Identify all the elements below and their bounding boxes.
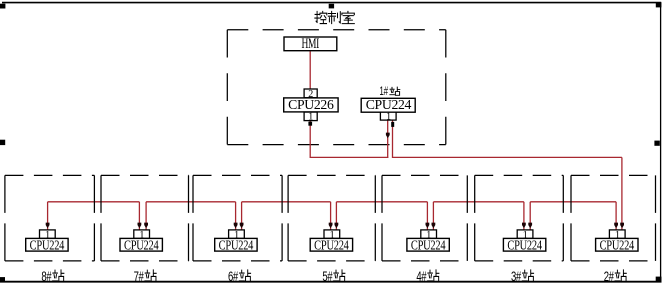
station 4 port 1	[421, 230, 437, 241]
arrowhead into station 7 port	[138, 223, 142, 229]
station 6 dashed enclosure	[193, 175, 282, 261]
selection handle top-right	[656, 2, 662, 7]
CPU224 station 1 port 1	[380, 111, 396, 122]
frame top border	[2, 2, 661, 4]
station 7 dashed enclosure	[101, 175, 189, 261]
bus wire segment station3-2	[530, 201, 616, 203]
svg-text:CPU224: CPU224	[124, 237, 159, 253]
drop wire to station 4 port	[432, 202, 434, 230]
arrowhead into station 7 port	[144, 223, 148, 229]
label 6#站	[228, 268, 251, 284]
wire CPU224 port 1 right down	[392, 120, 394, 158]
frame bottom border	[0, 281, 662, 283]
arrowhead into station 2 port	[620, 223, 624, 229]
arrowhead into station 8 port	[46, 223, 50, 229]
drop wire to station 4 port	[426, 202, 428, 230]
label 1#站 (station 1)	[379, 86, 399, 99]
label 4#站	[416, 268, 439, 284]
junction on station 1 right wire	[391, 122, 394, 127]
svg-text:CPU224: CPU224	[219, 237, 254, 253]
arrowhead into station 4 port	[426, 223, 430, 229]
arrowhead into station 5 port	[335, 223, 339, 229]
svg-text:HMI: HMI	[301, 35, 319, 52]
control room dashed enclosure	[227, 30, 445, 145]
selection handle top-left	[0, 4, 5, 9]
svg-text:CPU226: CPU226	[288, 97, 334, 112]
drop wire to station 5 port	[330, 202, 332, 230]
svg-text:3#: 3#	[511, 268, 521, 284]
label 控制室 (control room)	[315, 11, 355, 23]
station 2 port 1	[609, 230, 625, 241]
frame right border	[660, 3, 662, 282]
junction on CPU226 wire	[308, 122, 312, 126]
svg-text:6#: 6#	[228, 268, 238, 284]
arrowhead into station 5 port	[329, 223, 333, 229]
svg-text:5#: 5#	[322, 268, 332, 284]
drop wire to station 8 port	[47, 202, 49, 230]
station 7 port 1	[134, 230, 150, 241]
svg-text:CPU224: CPU224	[314, 237, 349, 253]
arrowhead on station 1 left wire	[386, 133, 390, 139]
CPU226 port 1	[304, 112, 317, 123]
station 5 dashed enclosure	[288, 175, 375, 261]
station 5 CPU224 box	[310, 237, 352, 253]
svg-text:2#: 2#	[604, 268, 614, 284]
label 8#站	[41, 268, 64, 284]
svg-text:1: 1	[308, 112, 313, 123]
svg-text:CPU224: CPU224	[30, 237, 65, 253]
station 3 CPU224 box	[503, 237, 545, 253]
arrowhead into station 3 port	[528, 223, 532, 229]
drop wire to station 6 port	[235, 202, 237, 230]
drop wire to station 7 port	[138, 202, 140, 230]
bus wire segment station8-7	[48, 201, 140, 203]
selection handle left-middle	[0, 140, 5, 145]
selection handle bottom-left	[0, 277, 5, 282]
drop wire to station 7 port	[145, 202, 147, 230]
arrowhead into station 6 port	[240, 223, 244, 229]
arrowhead into station 3 port	[522, 223, 526, 229]
svg-text:4#: 4#	[416, 268, 426, 284]
label 7#站	[134, 268, 157, 284]
bus wire segment station7-6	[146, 201, 236, 203]
arrowhead into station 6 port	[234, 223, 238, 229]
station 8 dashed enclosure	[5, 175, 95, 261]
drop wire to station 3 port	[523, 202, 525, 230]
arrowhead into station 2 port	[614, 223, 618, 229]
station 8 CPU224 box	[26, 237, 68, 253]
selection handle bottom-right	[656, 277, 662, 283]
station 5 port 1	[324, 230, 340, 241]
station 4 CPU224 box	[407, 237, 449, 253]
drop wire to station 6 port	[241, 202, 243, 230]
station 2 dashed enclosure	[571, 175, 656, 261]
station 4 dashed enclosure	[382, 175, 467, 261]
station 6 CPU224 box	[215, 237, 257, 253]
wire CPU226 port 1 down	[309, 121, 311, 158]
station 2 CPU224 box	[596, 237, 638, 253]
CPU226 box	[284, 97, 338, 112]
svg-text:CPU224: CPU224	[507, 237, 542, 253]
wire HMI to CPU226 port 2	[309, 51, 311, 89]
station 7 CPU224 box	[120, 237, 162, 253]
svg-text:7#: 7#	[134, 268, 144, 284]
label 5#站	[322, 268, 345, 284]
station 3 port 1	[517, 230, 533, 241]
station 8 port 1	[40, 230, 56, 241]
label 2#站	[604, 268, 627, 284]
bus wire segment station5-4	[336, 201, 427, 203]
svg-text:CPU224: CPU224	[411, 237, 446, 253]
svg-text:8#: 8#	[41, 268, 51, 284]
drop wire to station 2 port	[615, 202, 617, 230]
station 6 port 1	[229, 230, 245, 241]
selection handle right-middle	[654, 141, 659, 146]
selection handle top-middle	[329, 4, 334, 9]
drop wire to station 5 port	[335, 202, 337, 230]
wire horizontal CPU226 to CPU224	[310, 156, 388, 158]
svg-text:CPU224: CPU224	[366, 97, 412, 112]
CPU224 station 1 box	[361, 97, 415, 112]
label 3#站	[511, 268, 534, 284]
wire down to station 2 port	[621, 157, 623, 230]
arrowhead into station 4 port	[432, 223, 436, 229]
HMI box	[284, 35, 337, 52]
wire up to CPU224 port 1 left	[387, 120, 389, 158]
bus wire segment station6-5	[242, 201, 331, 203]
svg-text:CPU224: CPU224	[600, 237, 635, 253]
drop wire to station 3 port	[529, 202, 531, 230]
bus wire segment station4-3	[433, 201, 524, 203]
station 3 dashed enclosure	[475, 175, 564, 261]
svg-text:1: 1	[386, 111, 391, 122]
CPU226 port 2	[304, 89, 317, 100]
wire horizontal to station 2	[393, 156, 622, 158]
